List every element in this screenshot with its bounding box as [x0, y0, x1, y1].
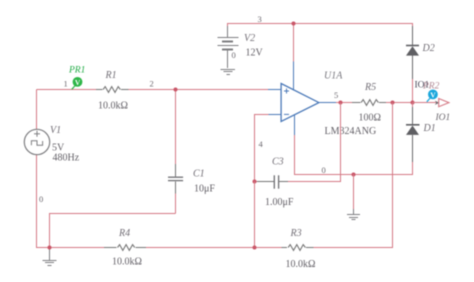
svg-text:R4: R4	[118, 228, 130, 239]
junction dot bottom rail	[253, 246, 257, 250]
wire output to IO	[413, 102, 437, 104]
svg-text:LM324ANG: LM324ANG	[325, 126, 377, 137]
wire V1 bottom	[36, 154, 38, 248]
svg-text:C1: C1	[193, 169, 205, 180]
svg-text:R3: R3	[290, 228, 302, 239]
junction dot C3 left	[253, 180, 257, 184]
ground middle	[347, 209, 360, 220]
svg-text:PR1: PR1	[68, 66, 85, 76]
wire V1 top	[36, 90, 38, 130]
wire bottom rail left	[36, 247, 104, 249]
svg-text:1.00μF: 1.00μF	[265, 197, 294, 208]
svg-text:C3: C3	[272, 157, 284, 168]
diode D1	[406, 107, 420, 162]
connector IO1 triangle	[439, 99, 449, 107]
svg-text:D2: D2	[422, 43, 435, 54]
wire feedback down to C3	[288, 103, 341, 182]
wire R5 right	[386, 102, 413, 104]
svg-text:4: 4	[259, 139, 264, 149]
junction dot ground left	[48, 246, 52, 250]
junction dot node 5	[339, 101, 343, 105]
svg-text:PR2: PR2	[422, 82, 440, 92]
svg-text:12V: 12V	[246, 48, 264, 59]
svg-text:480Hz: 480Hz	[53, 153, 80, 164]
svg-text:5: 5	[334, 90, 338, 100]
resistor R3	[281, 245, 313, 251]
svg-text:100Ω: 100Ω	[359, 113, 381, 124]
svg-text:R1: R1	[105, 70, 117, 81]
wire inverting input	[255, 115, 269, 182]
source V1	[24, 129, 49, 154]
svg-text:10μF: 10μF	[194, 184, 215, 195]
svg-text:R5: R5	[364, 82, 376, 93]
wire op-amp VCC to top rail	[293, 24, 295, 62]
wire D2 anode to output row	[412, 79, 414, 103]
junction dot top rail	[292, 22, 296, 26]
svg-text:V: V	[430, 91, 436, 100]
junction dot ground middle	[352, 173, 356, 177]
svg-text:10.0kΩ: 10.0kΩ	[286, 259, 316, 270]
svg-text:V: V	[75, 78, 81, 87]
wire ground middle stem	[353, 175, 355, 210]
junction dot node 2	[174, 88, 178, 92]
svg-text:U1A: U1A	[324, 71, 343, 82]
svg-text:D1: D1	[423, 123, 436, 134]
wire VEE down and ground row to D1	[295, 135, 413, 175]
resistor R4	[104, 245, 146, 251]
svg-text:2: 2	[150, 79, 154, 89]
wire bottom rail middle	[146, 247, 282, 249]
wire R1 to op-amp	[128, 89, 269, 91]
wire output node 5	[336, 102, 352, 104]
svg-text:V1: V1	[50, 125, 61, 136]
wire down to bottom rail right	[392, 103, 394, 248]
capacitor C1	[168, 164, 183, 194]
wire C1 bottom to ground corner	[50, 214, 176, 249]
resistor R1	[96, 87, 129, 93]
capacitor C3	[256, 175, 288, 188]
svg-text:IO1: IO1	[435, 113, 451, 123]
svg-text:1: 1	[64, 79, 68, 89]
svg-text:3: 3	[258, 14, 262, 24]
probe PR2	[427, 90, 438, 102]
svg-text:0: 0	[39, 194, 43, 204]
junction dot R5 right	[391, 101, 395, 105]
wire input row from V1 to R1	[37, 89, 97, 91]
wire node2 down to C1	[175, 90, 177, 165]
ground under V2, node 0	[221, 70, 236, 75]
op-amp U1A	[268, 61, 336, 135]
wire top rail node 3	[228, 24, 413, 46]
wire bottom rail right	[313, 247, 393, 249]
probe PR1	[72, 77, 83, 89]
wire C3 left to node	[255, 181, 258, 183]
wire C1 bottom lead	[175, 194, 177, 214]
junction dot diode node	[411, 101, 415, 105]
svg-text:0: 0	[322, 165, 326, 175]
wire C3 node down to bottom rail	[254, 182, 256, 248]
svg-text:V2: V2	[244, 33, 255, 44]
battery V2	[218, 26, 239, 68]
svg-text:10.0kΩ: 10.0kΩ	[112, 257, 142, 268]
resistor R5	[352, 100, 386, 106]
diode D2	[406, 26, 419, 80]
connector IO1 arrowhead	[435, 101, 440, 105]
ground left	[43, 248, 57, 266]
svg-text:0: 0	[232, 50, 236, 60]
svg-text:10.0kΩ: 10.0kΩ	[98, 101, 128, 112]
wire D1 top pin	[412, 103, 414, 108]
